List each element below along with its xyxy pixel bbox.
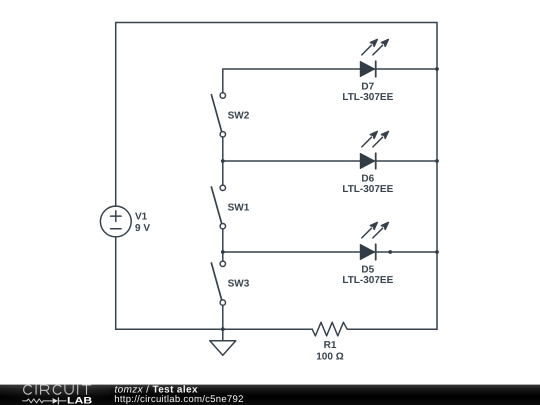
svg-text:LTL-307EE: LTL-307EE — [342, 184, 393, 195]
svg-text:LTL-307EE: LTL-307EE — [342, 275, 393, 286]
junction node D5 right — [435, 250, 439, 254]
junction node D6 right — [435, 159, 439, 163]
wire left lower — [115, 237, 117, 329]
junction node SW2-SW1 — [221, 159, 225, 163]
ground — [210, 329, 236, 355]
LED D5 — [360, 222, 388, 259]
svg-text:LAB: LAB — [67, 394, 92, 405]
voltage source V1 — [100, 206, 131, 237]
junction node D5 mid — [388, 250, 392, 254]
junction node bottom — [221, 327, 225, 331]
label V1 9V — [135, 212, 150, 235]
wire row D7 — [223, 68, 437, 70]
wire top — [116, 22, 437, 24]
svg-text:V1: V1 — [135, 212, 148, 223]
switch SW3 — [211, 252, 225, 329]
svg-text:R1: R1 — [324, 340, 337, 351]
svg-text:D5: D5 — [361, 264, 374, 275]
CircuitLab logo zigzag diode — [23, 398, 66, 404]
svg-text:SW1: SW1 — [228, 203, 250, 214]
label D6 — [342, 173, 393, 195]
label D5 — [342, 264, 393, 286]
LED D7 — [360, 39, 388, 76]
LED D6 — [360, 131, 388, 168]
svg-text:SW2: SW2 — [228, 110, 250, 121]
wire bottom left — [116, 328, 313, 330]
svg-text:http://circuitlab.com/c5ne792: http://circuitlab.com/c5ne792 — [114, 394, 243, 405]
wire left upper — [115, 23, 117, 207]
svg-text:100 Ω: 100 Ω — [316, 351, 343, 362]
junction node D7 right — [435, 67, 439, 71]
label R1 100ohm — [316, 340, 343, 362]
switch SW2 — [211, 69, 225, 161]
wire right — [436, 23, 438, 330]
switch SW1 — [211, 161, 225, 252]
CircuitLab logo CIRCUIT — [24, 385, 91, 394]
wire row D5 — [223, 251, 437, 253]
svg-text:LTL-307EE: LTL-307EE — [342, 92, 393, 103]
svg-text:D6: D6 — [361, 173, 374, 184]
label D7 — [342, 81, 393, 103]
resistor R1 — [312, 322, 347, 336]
junction node SW1-SW3 — [221, 250, 225, 254]
svg-text:9 V: 9 V — [135, 223, 150, 234]
svg-text:SW3: SW3 — [228, 279, 250, 290]
svg-text:D7: D7 — [361, 81, 374, 92]
footer bar — [0, 385, 540, 405]
wire row D6 — [223, 160, 437, 162]
wire bottom right — [347, 328, 437, 330]
